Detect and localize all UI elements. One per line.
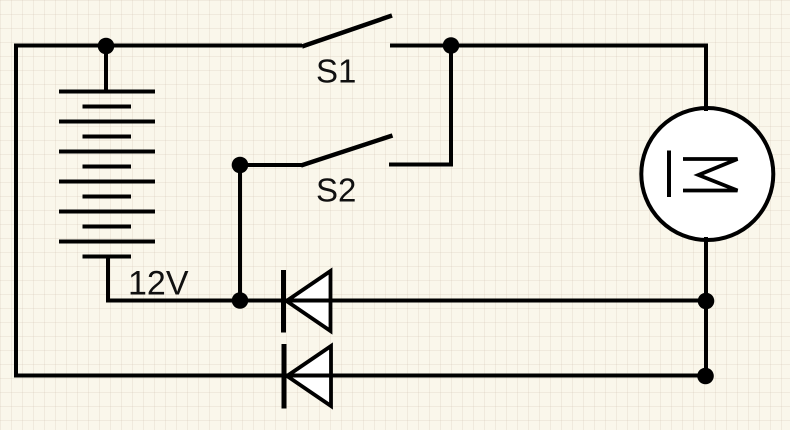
node D1 anode junction	[232, 292, 249, 309]
node bottom wire junction	[697, 368, 714, 385]
svg-text:S2: S2	[316, 172, 356, 209]
wire S2 input vertical (node to D1 anode)	[238, 165, 242, 301]
node battery+ junction	[98, 38, 115, 55]
diode D2	[282, 344, 332, 409]
node S2 input junction	[232, 157, 249, 174]
switch S1	[302, 16, 392, 47]
wire top right (S1 to top-right corner)	[390, 44, 708, 48]
diode D1	[281, 270, 331, 333]
svg-text:S1: S1	[316, 53, 356, 90]
wire S2 right vertical	[449, 44, 453, 167]
wire bottom (through D2 to bottom junction)	[14, 374, 706, 378]
wire top left (battery+ to S1)	[14, 44, 302, 48]
wire battery top stub	[104, 46, 108, 92]
wire left vertical	[14, 44, 18, 378]
node S1 output junction	[443, 37, 460, 54]
wire middle (battery- through D1 to motor junction)	[108, 299, 706, 303]
motor M1	[641, 108, 773, 240]
svg-text:12V: 12V	[128, 265, 189, 303]
battery B1	[59, 92, 155, 257]
node motor bottom junction	[698, 293, 715, 310]
switch S2	[238, 136, 453, 166]
wire motor bottom to bottom junction	[704, 237, 708, 376]
wire right vertical to motor top	[704, 44, 708, 112]
wire battery bottom stub	[106, 257, 110, 303]
